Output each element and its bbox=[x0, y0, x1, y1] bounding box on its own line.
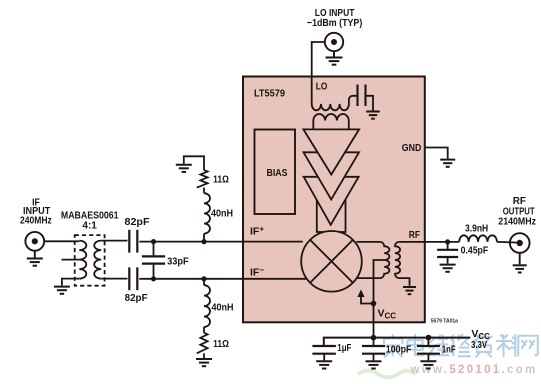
wire GND pin bbox=[425, 148, 448, 159]
watermark artifact swirl bbox=[358, 371, 416, 378]
wire LO connector to LO pin bbox=[312, 42, 325, 104]
svg-text:240MHz: 240MHz bbox=[20, 215, 52, 227]
capacitor LO internal bbox=[358, 85, 366, 107]
ground RF connector bbox=[513, 265, 527, 272]
svg-text:LO: LO bbox=[316, 80, 328, 92]
capacitor 82pF bottom bbox=[129, 267, 137, 290]
svg-text:RF: RF bbox=[409, 229, 421, 241]
svg-text:82pF: 82pF bbox=[125, 216, 151, 228]
ground bottom branch bbox=[196, 359, 212, 366]
inductor RF transformer primary bbox=[380, 242, 390, 278]
inductor balun secondary bbox=[94, 241, 101, 279]
svg-text:−1dBm (TYP): −1dBm (TYP) bbox=[307, 17, 362, 29]
ground 1nF bbox=[420, 361, 436, 368]
ground GND pin bbox=[440, 160, 455, 167]
wire to RF connector bbox=[497, 241, 520, 244]
wire cap to ground bbox=[366, 96, 374, 111]
svg-text:2140MHz: 2140MHz bbox=[498, 215, 536, 227]
svg-text:3.9nH: 3.9nH bbox=[465, 223, 488, 235]
ground 1uF bbox=[316, 361, 332, 368]
node junction IF- branch bbox=[201, 276, 206, 281]
wire IF- line bbox=[139, 278, 307, 280]
wire VCC arrow bend bbox=[361, 296, 374, 304]
ground 0.45pF bbox=[440, 265, 456, 272]
wire IF- branch down bbox=[203, 279, 205, 285]
resistor 11ohm bottom bbox=[197, 333, 208, 354]
capacitor 82pF top bbox=[129, 230, 137, 253]
inductor 40nH top bbox=[204, 193, 210, 233]
svg-text:0.45pF: 0.45pF bbox=[461, 244, 489, 256]
wire resistor to ground bottom bbox=[203, 353, 205, 358]
wire mixer to RF primary top bbox=[357, 241, 380, 243]
wire amp neck bbox=[317, 195, 346, 232]
ground RF secondary bbox=[403, 287, 416, 294]
ground at LO connector bbox=[326, 58, 343, 65]
mixer core bbox=[301, 231, 362, 292]
wire mixer to RF primary bottom bbox=[357, 277, 380, 279]
resistor 11ohm top bbox=[197, 170, 208, 188]
inductor LO transformer primary bbox=[312, 96, 358, 111]
connector LO input jack bbox=[325, 33, 343, 57]
ground balun bbox=[54, 287, 70, 294]
wire IF+ line bbox=[139, 241, 302, 243]
node junction 33pF top bbox=[151, 239, 156, 244]
wire VCC rail bbox=[324, 338, 471, 345]
svg-text:1nF: 1nF bbox=[442, 343, 456, 355]
svg-text:11Ω: 11Ω bbox=[213, 173, 229, 185]
capacitor 33pF bbox=[142, 242, 165, 279]
capacitor 0.45pF bbox=[437, 242, 458, 264]
wire RF output line bbox=[399, 241, 459, 243]
capacitor 1nF bbox=[417, 338, 440, 361]
node junction RF output bbox=[445, 239, 450, 244]
svg-text:3.3V: 3.3V bbox=[471, 339, 487, 351]
wire coil to resistor bbox=[203, 188, 205, 194]
wire balun primary bottom to ground bbox=[62, 279, 79, 286]
wire coil to resistor bottom bbox=[203, 327, 205, 333]
inductor LO transformer secondary bbox=[313, 114, 349, 129]
ground at IF connector bbox=[27, 259, 43, 266]
node junction rail 100pF bbox=[371, 335, 377, 341]
node junction rail 1nF bbox=[426, 335, 432, 341]
node junction IF+ branch bbox=[201, 239, 206, 244]
svg-text:LT5579: LT5579 bbox=[254, 88, 285, 100]
svg-text:40nH: 40nH bbox=[212, 301, 234, 313]
inductor 3.9nH bbox=[459, 235, 497, 242]
ground top branch bbox=[176, 165, 192, 172]
op-amp LO buffer A2 bbox=[304, 152, 360, 199]
svg-text:40nH: 40nH bbox=[211, 207, 233, 219]
node junction VCC tap bbox=[371, 301, 377, 307]
capacitor 1uF bbox=[312, 346, 336, 360]
wire IF connector to balun bbox=[44, 240, 75, 242]
wire balun secondary top bbox=[101, 240, 127, 242]
svg-text:82pF: 82pF bbox=[125, 292, 149, 304]
svg-text:33pF: 33pF bbox=[167, 255, 189, 267]
svg-text:11Ω: 11Ω bbox=[213, 338, 229, 350]
svg-text:1μF: 1μF bbox=[337, 342, 352, 354]
svg-text:BIAS: BIAS bbox=[267, 167, 288, 179]
inductor 40nH bottom bbox=[204, 285, 210, 327]
node junction 33pF bottom bbox=[151, 276, 156, 281]
connector RF output jack bbox=[510, 233, 530, 264]
capacitor 100pF bbox=[362, 338, 385, 361]
ground 100pF bbox=[366, 361, 382, 368]
wire balun primary top bbox=[75, 240, 79, 242]
wire balun secondary bottom bbox=[101, 278, 127, 280]
IC LT5579 body bbox=[243, 77, 425, 323]
inductor RF transformer secondary bbox=[395, 242, 410, 286]
ground LO cap bbox=[366, 112, 380, 119]
connector IF input jack bbox=[25, 232, 44, 258]
svg-text:GND: GND bbox=[402, 142, 422, 154]
wire IF+ branch up bbox=[203, 234, 205, 242]
svg-text:100pF: 100pF bbox=[386, 343, 412, 355]
wire balun center tap stub bbox=[62, 259, 80, 261]
svg-text:4:1: 4:1 bbox=[82, 220, 97, 232]
watermark chinese text bbox=[384, 334, 538, 357]
wire resistor to ground bbox=[184, 156, 204, 170]
svg-text:5579 TA01a: 5579 TA01a bbox=[431, 318, 459, 324]
op-amp LO buffer A1 bbox=[303, 129, 359, 174]
arrow VCC bbox=[357, 290, 364, 298]
block BIAS bbox=[255, 130, 296, 215]
op-amp LO buffer A3 bbox=[304, 177, 359, 225]
inductor balun primary bbox=[79, 241, 86, 279]
wire VCC center tap bbox=[374, 260, 385, 338]
